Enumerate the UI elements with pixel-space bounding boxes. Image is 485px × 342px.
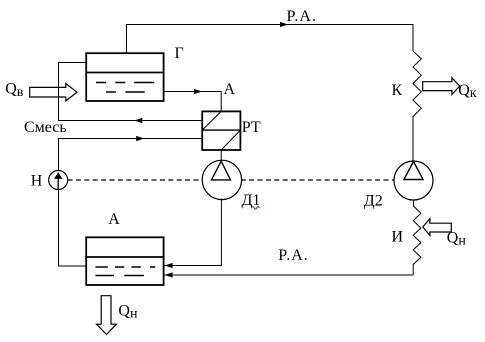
arrow: flow right on Р.А. top line (280, 22, 288, 27)
svg-text:Р.А.: Р.А. (278, 247, 308, 264)
wire: Г right outlet to node А and down into РТ (164, 92, 222, 112)
throttle Д1 (202, 160, 241, 199)
arrow: flow right into node А (194, 89, 202, 94)
wire: steam line Г top to К (Р.А. top) (127, 25, 414, 54)
heat exchanger РТ (202, 111, 240, 150)
svg-text:И: И (392, 229, 404, 246)
arrow: flow right into РТ lower (136, 136, 144, 141)
svg-text:Qк: Qк (458, 82, 477, 101)
svg-text:Р.А.: Р.А. (287, 8, 317, 25)
condenser К coil (413, 51, 421, 162)
svg-text:Н: Н (31, 173, 43, 190)
svg-text:К: К (392, 82, 403, 99)
wire: absorber А through pump Н to РТ (59, 139, 203, 267)
heat arrow Qк out of К (right) (423, 78, 460, 95)
svg-text:Д2: Д2 (364, 193, 383, 210)
shaft dashed line Д1 to Д2 (241, 179, 394, 181)
svg-text:А: А (224, 81, 236, 98)
heat arrow Qв into Г (30, 84, 77, 101)
heat arrow Qн into И (left) (423, 219, 452, 236)
wire: mixture РТ to Г (Смесь line) (59, 63, 203, 121)
svg-text:Qн: Qн (447, 230, 467, 249)
arrow: mixture flow left (134, 118, 142, 123)
arrow: flow left into absorber (lower) (165, 272, 173, 277)
generator Г liquid dashes row 1 (96, 82, 154, 84)
shaft dashed line Н to Д1 (68, 179, 203, 181)
svg-text:Г: Г (175, 45, 184, 62)
absorber tank А (86, 237, 163, 285)
generator tank Г (86, 53, 163, 101)
svg-text:А: А (108, 211, 120, 228)
expansion device Д2 (394, 161, 433, 200)
wire: РТ bottom to Д1 (220, 150, 222, 161)
evaporator И coil (413, 200, 421, 275)
svg-text:РТ: РТ (242, 119, 261, 136)
generator Г liquid dashes row 2 (106, 91, 145, 93)
wire: Р.А. bottom return И to absorber А (164, 274, 413, 276)
svg-text:Смесь: Смесь (24, 119, 67, 136)
wire: Д1 down into absorber А (164, 199, 221, 266)
spellcheck squiggle under Д1 (251, 207, 259, 210)
absorber А liquid dashes row 2 (96, 275, 144, 277)
absorber А liquid dashes row 1 (96, 266, 156, 268)
heat arrow Qн out of absorber (down) (97, 296, 117, 335)
arrow: flow left into absorber (upper) (165, 263, 173, 268)
pump Н (49, 171, 68, 190)
